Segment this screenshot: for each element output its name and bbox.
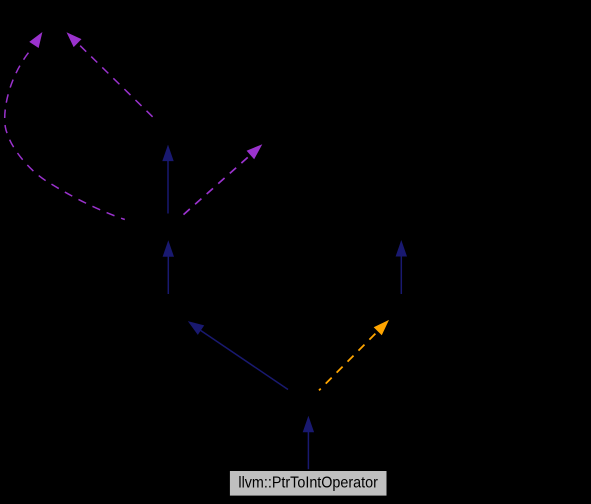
wire: inheritance Operator to User (blue solid vertical) [167,254,169,294]
arrowhead blue up-left [188,321,204,335]
arrowhead at llvm::Use bottom [67,32,82,47]
arrowhead blue [163,240,174,256]
wire: inheritance User to Value (blue solid vertical) [167,158,169,214]
wire: usage edge Value to Use (purple dashed straight) [78,44,153,117]
wire: usage edge curve User to Use (purple dashed big left curve) [5,50,125,220]
wire: inheritance ConcreteOperator inst to Operator (blue solid diagonal) [200,330,288,390]
arrowhead of curve at llvm::Use [29,32,42,48]
arrowhead blue [303,416,314,433]
arrowhead orange up-right [374,320,389,335]
wire: inheritance template ConcreteOperator to SuperClass (blue solid vertical right) [400,254,402,294]
wire: inheritance PtrToIntOperator to ConcreteOperator inst (blue solid vertical bottom) [307,430,309,469]
arrowhead purple up-right [247,144,263,159]
node llvm::PtrToIntOperator (grey filled box) [230,471,387,496]
arrowhead blue [162,145,173,162]
wire: usage edge User to Use-row right node (purple dashed diagonal) [184,154,253,215]
svg-text:llvm::PtrToIntOperator: llvm::PtrToIntOperator [238,474,378,491]
arrowhead blue [396,240,407,257]
wire: template relation ConcreteOperator inst to template (orange dashed diagonal) [319,332,377,390]
